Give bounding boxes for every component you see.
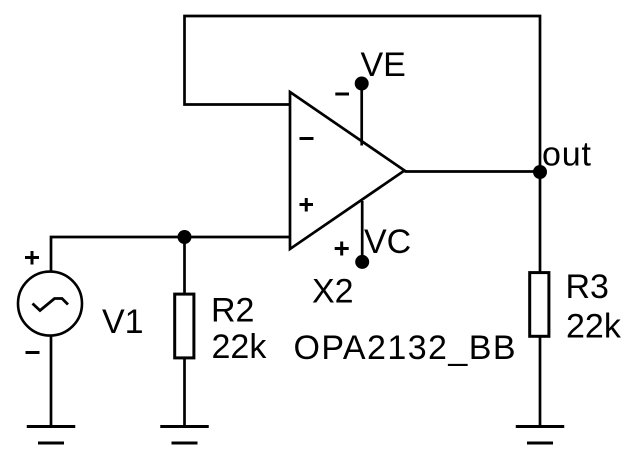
svg-text:OPA2132_BB: OPA2132_BB [294,329,516,367]
svg-text:VE: VE [361,46,406,84]
svg-text:22k: 22k [212,328,268,366]
svg-text:VC: VC [364,223,411,261]
svg-text:R3: R3 [566,268,609,306]
svg-text:V1: V1 [102,303,144,341]
svg-text:X2: X2 [312,273,354,311]
svg-text:out: out [542,136,592,174]
svg-text:R2: R2 [211,292,254,330]
svg-text:22k: 22k [566,308,622,346]
